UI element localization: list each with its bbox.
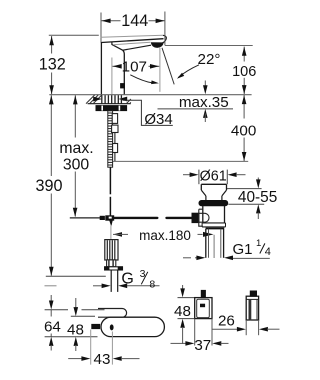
hose nut knurled bbox=[105, 240, 118, 260]
dimension 64 bbox=[44, 295, 61, 351]
fixing stud rod bbox=[114, 133, 116, 144]
fitting flange bbox=[105, 267, 123, 270]
dimension 390 bbox=[35, 95, 62, 276]
dimension 37 bbox=[171, 337, 229, 354]
svg-text:Ø34: Ø34 bbox=[144, 111, 172, 128]
hose nut lower bbox=[107, 260, 116, 267]
box front inner panel bbox=[197, 299, 210, 317]
dimension 26 bbox=[212, 312, 280, 331]
drain tailpipe bbox=[206, 229, 224, 258]
fixing stud block bbox=[112, 125, 118, 132]
pop-up wire to drain bbox=[110, 225, 112, 239]
drain arm clamp block bbox=[192, 213, 199, 222]
pop-up horizontal rod left bbox=[70, 217, 100, 219]
svg-text:4: 4 bbox=[265, 246, 271, 258]
svg-text:132: 132 bbox=[39, 56, 66, 74]
box side extension lines bbox=[246, 320, 258, 335]
faucet head top edge bbox=[101, 39, 163, 43]
leader O34 bbox=[123, 100, 173, 125]
box keyhole bbox=[110, 324, 114, 330]
dimension max.35 bbox=[158, 81, 234, 123]
wire: 144 left extension line bbox=[100, 13, 102, 43]
counter slab bottom line bbox=[88, 103, 131, 105]
ref line box bottom bbox=[45, 336, 98, 338]
svg-text:37: 37 bbox=[194, 337, 211, 354]
rod taper below block bbox=[110, 220, 113, 225]
svg-text:48: 48 bbox=[67, 321, 84, 338]
dimension 106 bbox=[232, 47, 256, 95]
label max.35 bbox=[179, 94, 229, 111]
svg-text:26: 26 bbox=[218, 312, 235, 329]
drain flange bbox=[201, 184, 226, 200]
svg-text:G: G bbox=[121, 271, 133, 288]
faucet head underside step bbox=[112, 42, 151, 50]
faucet head top highlight line bbox=[101, 35, 163, 37]
box side lip bbox=[246, 298, 258, 300]
box front extension lines bbox=[195, 319, 212, 346]
hole arrows (O34) bbox=[93, 97, 127, 102]
svg-text:max.: max. bbox=[59, 140, 93, 157]
counter hatching bbox=[86, 95, 131, 104]
dimension 40-55 bbox=[227, 178, 277, 220]
dimension 400 bbox=[231, 95, 256, 161]
svg-text:G1: G1 bbox=[232, 241, 252, 258]
ref line spout tip height bbox=[165, 45, 253, 47]
fixing stud nut bbox=[112, 114, 117, 124]
box side view bbox=[246, 296, 258, 320]
rod crossing block bbox=[106, 216, 114, 220]
box front dash bbox=[200, 304, 204, 307]
box front button bbox=[201, 290, 205, 297]
G38 arrows bbox=[45, 284, 160, 289]
svg-text:390: 390 bbox=[35, 177, 62, 195]
dimension 107 bbox=[112, 48, 160, 95]
svg-text:400: 400 bbox=[231, 122, 256, 139]
dimension max.300 bbox=[59, 95, 93, 217]
faucet shank threads through counter bbox=[102, 95, 122, 103]
faucet body back edge bbox=[100, 42, 102, 95]
faucet aerator bbox=[151, 43, 163, 48]
svg-text:40-55: 40-55 bbox=[238, 189, 277, 206]
svg-text:8: 8 bbox=[149, 278, 155, 290]
leader 22 degrees bbox=[177, 65, 199, 79]
box side button bbox=[250, 291, 256, 296]
ref line box tab top bbox=[45, 309, 105, 311]
svg-text:1: 1 bbox=[256, 238, 261, 249]
dimension O61 bbox=[183, 168, 246, 184]
svg-text:107: 107 bbox=[122, 59, 147, 76]
faucet spout tip bbox=[162, 35, 166, 43]
box side inner line bbox=[256, 299, 258, 320]
box nipple bbox=[92, 324, 100, 328]
dimension 144 bbox=[101, 12, 165, 46]
svg-text:Ø61: Ø61 bbox=[200, 168, 227, 184]
dimension 48 right bbox=[174, 285, 191, 344]
fixing stud lower rod bbox=[114, 153, 116, 162]
drain gasket bbox=[199, 201, 228, 206]
label max.180 bbox=[113, 228, 214, 243]
svg-text:max.180: max.180 bbox=[139, 228, 191, 243]
label G38 bbox=[121, 268, 155, 290]
pop-up rod upper bbox=[109, 167, 111, 216]
drain centerline bbox=[213, 235, 215, 258]
sensor beam arrow bbox=[130, 75, 159, 84]
rod knob bbox=[100, 216, 104, 219]
drain body bbox=[202, 206, 225, 229]
ref line 390 bottom bbox=[46, 275, 106, 277]
svg-text:64: 64 bbox=[44, 319, 61, 336]
box front view bbox=[195, 298, 212, 319]
drain arm socket bbox=[199, 209, 203, 226]
pop-up horizontal rod mid bbox=[115, 217, 158, 219]
dimension 43 bbox=[68, 330, 139, 369]
svg-text:22°: 22° bbox=[198, 51, 221, 68]
label 22 degrees bbox=[198, 51, 221, 68]
mounting washer bbox=[96, 106, 127, 111]
water stream line bbox=[162, 48, 174, 85]
svg-text:48: 48 bbox=[174, 303, 191, 320]
svg-text:43: 43 bbox=[94, 351, 111, 368]
ref line box top bbox=[71, 315, 95, 317]
control box pill bbox=[101, 317, 164, 336]
ref line hose end bbox=[113, 160, 248, 162]
label O34 bbox=[144, 111, 172, 128]
box hose tab bbox=[98, 309, 127, 318]
dimension 132 bbox=[39, 35, 99, 94]
svg-text:144: 144 bbox=[121, 12, 148, 30]
pop-up horizontal rod right bbox=[167, 217, 193, 219]
sensor window bbox=[121, 84, 125, 88]
faucet body front edge bbox=[123, 50, 125, 95]
counter top reference line bbox=[49, 94, 251, 96]
label G114 bbox=[232, 238, 270, 258]
G114 arrows bbox=[183, 256, 270, 261]
supply pipe bbox=[111, 270, 118, 292]
svg-text:300: 300 bbox=[63, 157, 90, 174]
threaded shank rod bbox=[108, 111, 113, 167]
faucet head shadow line bbox=[113, 42, 150, 45]
drain arm ball rod bbox=[199, 213, 209, 222]
ref lines 48 right bbox=[178, 298, 195, 319]
box side stripe bbox=[249, 299, 251, 320]
svg-text:106: 106 bbox=[232, 64, 256, 80]
dimension 48 left bbox=[67, 298, 84, 351]
fixing stud lower block bbox=[113, 144, 118, 153]
